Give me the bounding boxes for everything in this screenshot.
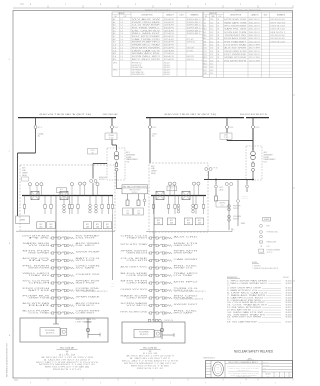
panel feeder 3 [144,194,146,199]
instrument power transformer enclosure (right) [246,146,262,180]
svg-text:B 1 LVL 1M: B 1 LVL 1M [143,353,159,355]
svg-text:52-2: 52-2 [210,54,213,56]
svg-text:6E-11407: 6E-11407 [286,283,292,285]
svg-text:480-120 V: 480-120 V [164,67,170,69]
feeder to MCC column A [55,196,57,232]
svg-text:X-8: X-8 [204,41,207,43]
svg-text:480 V 3PH: 480 V 3PH [249,44,260,46]
svg-text:C1521 1B: C1521 1B [242,196,248,198]
svg-text:CONT: CONT [179,15,183,17]
svg-text:SCRN ESF TURB: SCRN ESF TURB [224,32,246,34]
cable tag box C1504 [88,149,98,155]
svg-text:6E-11428: 6E-11428 [286,290,292,292]
load center 1B label [151,166,157,175]
svg-text:REFERENCE DRAWINGS RIVER WTR: REFERENCE DRAWINGS RIVER WTR [6,342,9,377]
svg-text:BKR: BKR [212,16,215,18]
drawing number fields [262,362,293,378]
svg-text:LINE OF DIST: LINE OF DIST [76,321,92,323]
feeder stub x247 [246,180,248,185]
load center 1A cubicle labels [37,222,112,229]
svg-text:C1510: C1510 [152,133,157,135]
svg-text:MCC 1B2 T-2 SYM 480/277 V SYS: MCC 1B2 T-2 SYM 480/277 V SYS [122,361,178,363]
svg-text:DWG 6E-1400 SH 1: DWG 6E-1400 SH 1 [270,38,285,40]
svg-text:PUMP BUS: PUMP BUS [22,296,49,298]
svg-text:PNL RIVER: PNL RIVER [22,266,49,268]
svg-text:6E-11442: 6E-11442 [286,295,292,297]
CT pair below tie bus [225,183,228,186]
wire from 1Y11 to distribution panel [116,180,118,189]
svg-text:CORE PNL: CORE PNL [76,288,101,290]
load center 1A label [22,168,29,181]
MCC 1A2 note block [36,353,98,371]
svg-text:6E-11435: 6E-11435 [286,293,292,295]
svg-text:480-120 V: 480-120 V [249,51,260,53]
svg-text:1-4: 1-4 [121,59,123,61]
svg-text:J-18: J-18 [204,73,207,75]
svg-text:CRDH: CRDH [28,283,49,285]
svg-text:1-1: 1-1 [121,19,123,21]
svg-text:C1504B: C1504B [108,135,113,137]
svg-text:XFMR SWGR: XFMR SWGR [120,251,147,253]
svg-text:ONE LINE 480V: ONE LINE 480V [237,376,251,378]
svg-text:WITH 1B2 SW: WITH 1B2 SW [270,22,286,24]
svg-text:SVC CLG FDR: SVC CLG FDR [22,281,49,283]
svg-text:PNL DSL: PNL DSL [174,311,199,313]
svg-text:DSL HTR: DSL HTR [76,238,95,240]
svg-text:MTR/LTG MK46002 T-2 (B) CKT 42: MTR/LTG MK46002 T-2 (B) CKT 42 [124,363,177,365]
svg-text:1-3: 1-3 [121,50,123,52]
svg-text:DWG 6E-1407: DWG 6E-1407 [270,41,285,43]
svg-text:52-8: 52-8 [210,48,213,50]
svg-text:X-1: X-1 [204,19,207,21]
svg-text:6E-11456: 6E-11456 [286,300,292,302]
instrument power transformer enclosure (left) [107,148,125,180]
svg-text:1B2 (B): 1B2 (B) [151,173,156,175]
svg-text:1-3: 1-3 [121,33,123,35]
svg-text:480-120 V: 480-120 V [164,74,170,76]
svg-text:FUTURE EQUIPMENT: FUTURE EQUIPMENT [267,250,281,252]
svg-text:MCC: MCC [157,220,160,222]
svg-text:1. DELETED: 1. DELETED [253,265,261,267]
svg-text:CLG ESF: CLG ESF [120,258,148,260]
svg-text:J-11: J-11 [204,51,207,53]
svg-text:HTR ESF INV: HTR ESF INV [224,19,246,21]
svg-text:1-4: 1-4 [121,45,123,47]
bus 4160V 1B2 [246,117,269,119]
svg-text:CENTER: CENTER [151,171,157,173]
svg-text:RIVER PUMP HPCI: RIVER PUMP HPCI [132,42,161,44]
svg-text:INSTRUMENT: INSTRUMENT [126,154,135,156]
svg-text:POWER: POWER [264,157,269,159]
svg-text:1B2 (NOTE 2): 1B2 (NOTE 2) [140,334,149,336]
svg-text:VLV WELL: VLV WELL [187,50,194,52]
svg-text:DWG 6E-1400 SH 1: DWG 6E-1400 SH 1 [270,35,285,37]
panel feeder 1 [127,194,129,200]
MCC 1B2 internal riser [161,322,163,339]
svg-text:MCC: MCC [50,224,53,226]
svg-text:1-9: 1-9 [121,22,123,24]
svg-text:DEVICE: DEVICE [119,13,125,15]
transformer 1Y11 meter [115,168,118,171]
svg-text:MCC: MCC [106,224,109,226]
legend watthour item [260,231,263,234]
load center enclosure bottom edges (solid) [16,230,115,232]
svg-text:1B23: 1B23 [198,223,201,225]
svg-text:DWG 6E-1: DWG 6E-1 [187,25,202,27]
svg-text:TO: TO [112,283,114,285]
PE seal [213,362,224,376]
svg-text:(NOTE 2): (NOTE 2) [132,192,138,194]
svg-text:MCC INST WTR: MCC INST WTR [132,59,160,61]
svg-text:6E-1407: 6E-1407 [266,374,271,376]
svg-text:1B2: 1B2 [149,351,152,353]
table of devices (left) row entries [113,18,201,76]
svg-text:1-3: 1-3 [121,53,123,55]
svg-text:MCC: MCC [198,220,201,222]
svg-text:1B: 1B [217,60,219,62]
svg-text:X-16: X-16 [204,67,207,69]
svg-text:RX MTR MTR: RX MTR MTR [224,60,246,62]
svg-text:W-4: W-4 [204,29,207,31]
svg-text:RIVER WTR SVC BLDG COMPOSITE: RIVER WTR SVC BLDG COMPOSITE [231,374,257,376]
svg-text:1B23: 1B23 [170,223,173,225]
svg-text:480-120 V: 480-120 V [249,35,260,37]
svg-text:480-120 V: 480-120 V [249,38,260,40]
svg-text:J-2: J-2 [204,22,206,24]
svg-text:TURB INST INV: TURB INST INV [224,35,246,37]
transformer 1Y21 meter [252,168,255,171]
svg-text:PNL DSL: PNL DSL [174,266,199,268]
svg-text:1-5: 1-5 [121,56,123,58]
svg-text:480/277 V BLTG: 480/277 V BLTG [76,319,96,321]
reference list [227,279,292,323]
svg-text:52-6: 52-6 [210,19,213,21]
svg-text:SH 1: SH 1 [267,376,270,378]
MCC 1A2 panel label [40,328,60,336]
svg-text:480 V: 480 V [22,168,26,170]
svg-text:CRD HTR: CRD HTR [126,260,147,262]
svg-text:K-14: K-14 [204,60,207,62]
tie bus to instrument transformer right [227,140,253,142]
svg-text:TO 1B2: TO 1B2 [224,137,229,139]
tie wire to load center bus [93,163,107,165]
svg-text:LTG: LTG [126,210,128,212]
svg-text:MCC: MCC [40,224,43,226]
svg-text:DWG NO.: DWG NO. [283,277,290,279]
svg-text:1B26: 1B26 [187,223,190,225]
svg-text:MCC GEN: MCC GEN [187,39,194,41]
svg-text:480-120 V: 480-120 V [164,70,170,72]
svg-text:DIST MTR PUMP: DIST MTR PUMP [132,36,160,38]
svg-text:17. (-): 17. (-) [227,319,231,321]
svg-text:B 2-2: B 2-2 [230,127,234,129]
svg-text:BUS DUCT: BUS DUCT [99,179,106,181]
load center 1B feeder drops [152,196,204,215]
svg-text:DESCRIPTION: DESCRIPTION [142,15,154,17]
boxed label near x222 [216,201,229,208]
transformer 1Y21 fuse [252,161,254,163]
top zone ticks and numbers [20,3,293,8]
svg-text:480-120 V: 480-120 V [164,63,170,65]
svg-text:SECTION: SECTION [263,362,268,364]
svg-text:DIST XFMR ESF: DIST XFMR ESF [224,54,246,56]
svg-text:6E-11498: 6E-11498 [286,314,292,316]
svg-text:6E-11400: 6E-11400 [286,280,292,282]
svg-text:-1A2-: -1A2- [20,3,25,6]
svg-text:CRD GEN: CRD GEN [76,266,100,268]
svg-text:52-8: 52-8 [210,60,213,62]
svg-text:1-2: 1-2 [121,47,123,49]
legend transducer item [260,241,263,243]
svg-text:REG: REG [217,367,220,369]
svg-text:C-12: C-12 [113,50,116,52]
title description field [225,363,262,365]
svg-text:4160 VOLT BUS 1B1 'B' (NOT 1E): 4160 VOLT BUS 1B1 'B' (NOT 1E) [164,114,217,116]
svg-text:CHGR RX: CHGR RX [76,274,100,276]
svg-text:52-8: 52-8 [210,67,213,69]
svg-text:MCC 1 (CR) 1A2: MCC 1 (CR) 1A2 [60,346,74,349]
svg-text:120 V 1PH: 120 V 1PH [249,57,260,59]
svg-text:RX: RX [28,238,49,240]
breaker label boxes 1B [167,186,177,191]
load center 1B bus [151,195,206,197]
svg-text:BLDG PUMP: BLDG PUMP [22,311,49,313]
svg-text:TABLE OF DEVICES: TABLE OF DEVICES [235,9,262,12]
svg-text:52-8: 52-8 [210,26,213,28]
svg-text:PER ECN 1 FT 42: PER ECN 1 FT 42 [137,368,164,370]
svg-text:52-2: 52-2 [210,32,213,34]
svg-text:240-120 V: 240-120 V [249,41,260,43]
MCC bus column B [153,232,155,322]
svg-text:FDR CRDH: FDR CRDH [22,288,49,290]
svg-text:MCC: MCC [96,224,99,226]
svg-text:SCRN WELL HPCI: SCRN WELL HPCI [132,56,161,58]
svg-text:B 2-1: B 2-1 [170,188,173,190]
svg-text:C1515: C1515 [224,135,228,137]
breaker 1-2 [111,118,113,125]
svg-text:52-2: 52-2 [210,70,213,72]
svg-text:CPT-2: CPT-2 [113,70,117,72]
breaker 2-2 [226,118,228,125]
transformer 1Y11 winding [114,152,119,157]
wire into instrument transformer box [111,140,113,146]
svg-text:52-4: 52-4 [210,44,213,46]
breaker 2-1 [149,118,151,125]
svg-text:DWG 6E-1: DWG 6E-1 [187,27,202,29]
svg-text:1-4: 1-4 [121,36,123,38]
feeder to MCC column B [153,196,155,233]
svg-text:RIVER WTR: RIVER WTR [233,206,240,208]
svg-text:CHGR VLV SVC: CHGR VLV SVC [120,289,147,291]
svg-text:C1504: C1504 [91,150,95,152]
svg-text:MCC: MCC [187,220,190,222]
svg-text:LTG: LTG [137,210,139,212]
load center 1A enclosure [20,165,115,231]
svg-text:GEN SCRN: GEN SCRN [187,47,194,49]
svg-text:480 V: 480 V [264,152,268,154]
svg-text:16. WTR DIST VLV XFMR: 16. WTR DIST VLV XFMR [227,317,261,319]
svg-text:SWGR XFMR SCRN: SWGR XFMR SCRN [224,51,246,53]
svg-text:CORE INST: CORE INST [76,313,95,315]
svg-text:CRDH RHR: CRDH RHR [76,311,100,313]
svg-text:52-3: 52-3 [210,22,213,24]
svg-text:DWG 6E-1407: DWG 6E-1407 [270,29,285,31]
table of devices (right) header text [205,13,285,18]
svg-text:DWG 6E-1: DWG 6E-1 [187,19,202,21]
metering 1B group [168,182,200,196]
svg-text:K-5: K-5 [204,32,207,34]
svg-text:DSL HPCI: DSL HPCI [76,245,97,247]
svg-text:GEN BLDG: GEN BLDG [126,253,149,255]
instrument transformer label (right) [264,152,276,164]
svg-text:1B: 1B [217,32,219,34]
svg-text:XFMR CLG: XFMR CLG [187,59,194,61]
svg-text:E-9: E-9 [113,42,116,44]
svg-text:W-13: W-13 [204,57,208,59]
MCC 1B2 cabinet outline [122,322,185,343]
svg-text:6E-11491: 6E-11491 [286,312,292,314]
svg-text:DWG 6E-1407: DWG 6E-1407 [270,26,285,28]
svg-text:VLV GEN: VLV GEN [28,245,49,247]
potential transformer pair right [205,168,208,171]
svg-text:1-2: 1-2 [121,42,123,44]
column A bus termination [55,318,57,324]
svg-text:480-120 V: 480-120 V [249,19,260,21]
svg-text:52-7: 52-7 [210,63,213,65]
svg-text:X-10: X-10 [204,48,207,50]
cable label box C1515 [220,133,232,139]
svg-text:PER ECN 1 FT 41: PER ECN 1 FT 41 [53,369,82,371]
svg-text:CRD CLG: CRD CLG [120,236,151,238]
svg-text:W-15: W-15 [204,63,208,65]
feeder stub x216 [215,180,217,185]
svg-text:BLDG HSE: BLDG HSE [120,273,147,275]
MCC bus column A [55,231,57,318]
svg-text:HSE GEN CHGR: HSE GEN CHGR [132,67,143,69]
svg-text:240-120 V: 240-120 V [249,54,260,56]
svg-text:(NOTE 2): (NOTE 2) [267,252,273,254]
svg-text:DESCRIPTION: DESCRIPTION [230,15,242,17]
bus 4160V 1A1 [18,117,116,119]
sheet centering tick [245,378,247,381]
svg-text:TB: TB [260,246,262,248]
revision rows [206,363,212,374]
svg-text:WELL HPCI: WELL HPCI [22,273,51,275]
svg-text:B 2-3: B 2-3 [256,127,260,129]
svg-text:480-120 V: 480-120 V [164,72,170,74]
svg-text:6E-11519: 6E-11519 [286,322,292,324]
wire into load center 1B [149,133,151,163]
MCC 1B2 panel label [134,329,154,337]
right border quarter ticks [293,94,296,96]
svg-text:240-120 V: 240-120 V [249,32,260,34]
svg-text:480V PNL: 480V PNL [219,202,225,204]
svg-text:CPT-1: CPT-1 [113,63,117,65]
svg-text:6E-11470: 6E-11470 [286,305,292,307]
svg-text:MCC: MCC [170,220,173,222]
svg-text:RHR MTR: RHR MTR [174,251,198,253]
MCC 1B2 note block [122,353,178,370]
svg-text:B. 1B21-B1 OR 30CT 42 V: B. 1B21-B1 OR 30CT 42 V [130,358,170,360]
svg-text:NUCLEAR SAFETY RELATED: NUCLEAR SAFETY RELATED [234,349,274,353]
title block frame [206,361,293,378]
svg-text:CRD ESF: CRD ESF [126,298,147,300]
station service transformer 1B (X box) [156,191,164,199]
svg-text:P.ENG NOTICE C: P.ENG NOTICE C [204,357,216,359]
svg-text:TYPE: TYPE [263,368,266,370]
table of devices (right) grid [203,12,293,78]
svg-text:480V SVC: 480V SVC [242,198,248,200]
svg-text:MCC 1 (CR) 1B2: MCC 1 (CR) 1B2 [143,347,157,349]
svg-text:1Y21: 1Y21 [264,162,267,164]
svg-text:DWG 6E-1: DWG 6E-1 [187,33,202,35]
potential transformer pair [90,180,93,183]
transformer 1Y21 winding [251,151,256,156]
MCC 1A2 cabinet outline [20,318,108,342]
svg-text:480 V: 480 V [151,166,155,168]
table of devices (right) row entries [204,18,287,75]
svg-text:120 V 1PH: 120 V 1PH [249,60,260,62]
svg-text:12. PNL WELL MTR RIVER: 12. PNL WELL MTR RIVER [227,307,261,309]
svg-text:C-10: C-10 [113,45,116,47]
svg-text:480-120 V: 480-120 V [249,26,260,28]
svg-text:52-2: 52-2 [210,29,213,31]
svg-text:HSE LTG: HSE LTG [174,243,201,245]
svg-text:LEGEND: LEGEND [264,219,270,221]
svg-text:DSL CRDH VLV: DSL CRDH VLV [132,30,160,32]
svg-text:1B: 1B [217,26,219,28]
riser into instrument transformer right [252,129,254,151]
svg-text:MTR: MTR [267,226,270,228]
svg-text:52-8: 52-8 [210,57,213,59]
svg-text:D-14: D-14 [113,56,116,58]
svg-text:LOC: LOC [219,16,222,18]
svg-text:4. UNIT CRDH HPCI CHGR: 4. UNIT CRDH HPCI CHGR [227,288,261,290]
svg-text:J-17: J-17 [204,70,207,72]
svg-text:4160 VOLT BUS 1A1 'A' (NOT 1E): 4160 VOLT BUS 1A1 'A' (NOT 1E) [39,113,92,116]
svg-text:PNL 1Y11 / 1Y17: PNL 1Y11 / 1Y17 [130,190,140,192]
svg-text:XFMR TURB: XFMR TURB [28,298,49,300]
svg-text:480 V: 480 V [126,152,130,154]
svg-text:PT 1B: PT 1B [214,168,218,170]
svg-text:BRKTS/LOTPLUG 'T' B 1B6: BRKTS/LOTPLUG 'T' B 1B6 [131,365,170,367]
feeder B12 partial row [148,319,151,321]
svg-text:SWGR PUMP: SWGR PUMP [76,252,100,254]
svg-text:1Y11: 1Y11 [126,162,129,164]
svg-text:CENTER: CENTER [22,172,28,174]
svg-text:RHR: RHR [28,305,49,307]
svg-text:52-4: 52-4 [210,51,213,53]
svg-text:B 1-1: B 1-1 [38,127,42,129]
metering 1A group [28,182,99,196]
load center 1B cubicle labels [154,218,203,225]
svg-text:W-7: W-7 [204,38,207,40]
svg-text:B 1-2: B 1-2 [115,127,119,129]
svg-text:LUG: LUG [267,246,270,248]
svg-text:1B24: 1B24 [157,223,160,225]
load center 1B enclosure [149,163,208,232]
svg-text:B 2-1: B 2-1 [153,127,157,129]
svg-text:1-6: 1-6 [121,39,123,41]
svg-text:INV: INV [28,260,49,262]
svg-text:DWG 6E-1: DWG 6E-1 [187,30,202,32]
wire to left riser [35,133,37,153]
svg-text:X-9: X-9 [204,44,207,46]
svg-text:MTR HPCI: MTR HPCI [174,282,200,284]
legend relay item [260,235,263,238]
svg-text:52-3: 52-3 [210,35,213,37]
breaker 2-3 [252,118,254,125]
